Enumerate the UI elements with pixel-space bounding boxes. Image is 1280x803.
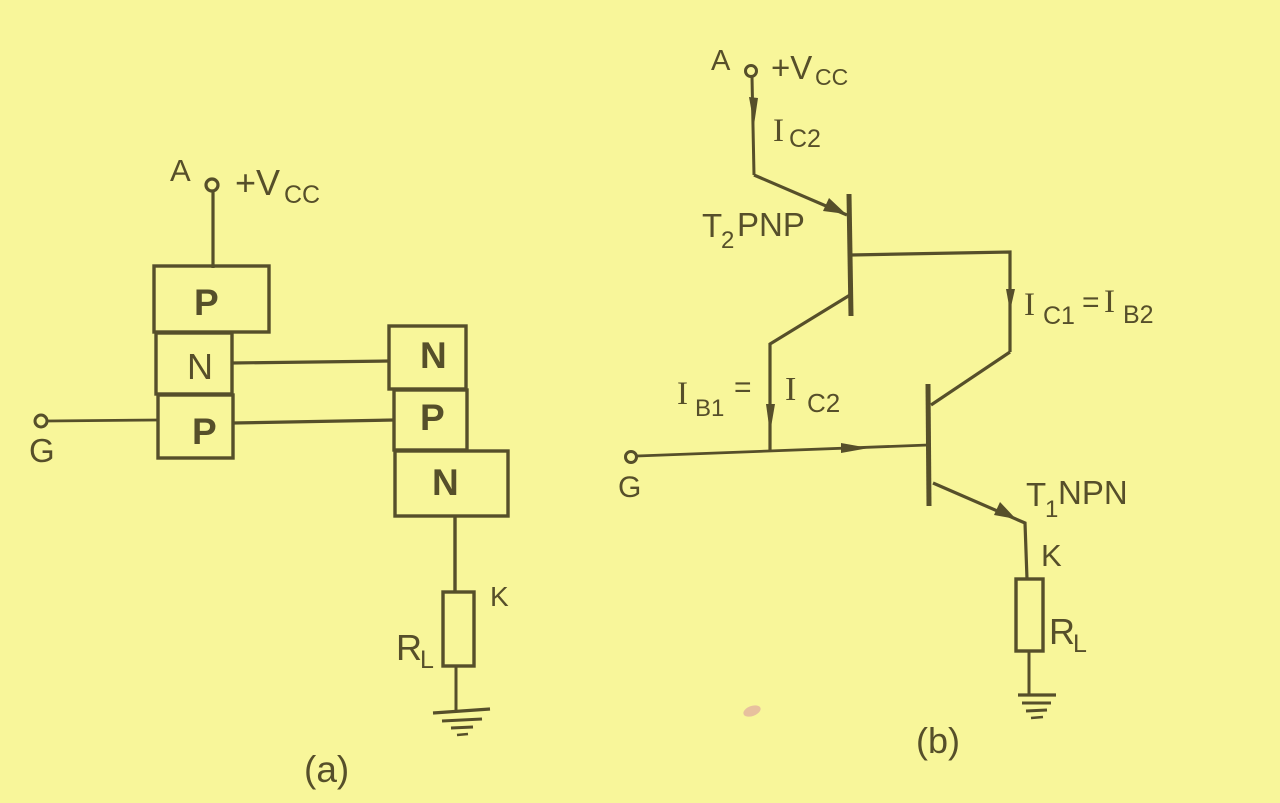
svg-text:P: P — [192, 411, 217, 452]
+Vcc label — [235, 162, 320, 209]
svg-text:I: I — [785, 371, 796, 408]
svg-text:C2: C2 — [807, 388, 840, 418]
current arrow Ib1 wire — [766, 404, 775, 433]
svg-text:=: = — [1082, 286, 1100, 319]
svg-text:A: A — [711, 45, 731, 77]
label K (b) — [1041, 538, 1062, 573]
N region box (left middle) — [156, 333, 232, 394]
T1 collector wire — [931, 352, 1010, 405]
node A label (b) — [711, 45, 731, 77]
wire N box to resistor — [453, 516, 456, 592]
wire G to T1 base — [637, 445, 928, 456]
caption (b) — [916, 720, 960, 761]
label P (gate region) — [192, 411, 217, 452]
svg-text:1: 1 — [1045, 496, 1058, 523]
svg-text:K: K — [490, 581, 509, 612]
label N (right top) — [420, 335, 447, 376]
ground (a) — [433, 709, 490, 735]
svg-text:G: G — [618, 471, 641, 504]
T2 emitter arrow — [823, 198, 846, 214]
svg-text:I: I — [1104, 284, 1115, 320]
terminal G circle — [35, 415, 47, 427]
svg-text:CC: CC — [815, 64, 848, 90]
N region box (right top) — [389, 326, 466, 389]
wire N to N — [232, 361, 389, 363]
svg-text:(b): (b) — [916, 720, 960, 761]
svg-text:I: I — [677, 376, 688, 412]
wire G to P box — [47, 420, 158, 421]
pink smudge artifact — [742, 703, 762, 719]
+Vcc label (b) — [771, 49, 848, 90]
svg-text:A: A — [170, 153, 191, 188]
T2 emitter wire — [754, 175, 847, 215]
T1 emitter arrow — [994, 502, 1016, 519]
wire resistor to ground (b) — [1028, 651, 1031, 695]
T2 base wire to right — [851, 252, 1010, 352]
svg-text:N: N — [420, 335, 447, 376]
gate current arrow — [841, 443, 869, 453]
svg-text:L: L — [420, 646, 434, 674]
terminal G circle (b) — [626, 452, 637, 463]
wire P to P — [233, 420, 394, 423]
svg-text:R: R — [396, 627, 422, 668]
label Ic2 mid — [785, 371, 840, 418]
label Ic2 top — [773, 113, 821, 153]
T2 collector wire — [770, 295, 850, 450]
svg-text:P: P — [194, 282, 219, 323]
N region box (right bottom, cathode) — [395, 451, 508, 516]
label N (left middle) — [187, 346, 213, 387]
label RL (b) — [1049, 611, 1087, 658]
svg-text:N: N — [187, 346, 213, 387]
T2 base bar — [849, 194, 851, 316]
svg-text:G: G — [29, 432, 55, 469]
wire A to P box — [211, 191, 214, 268]
T1 base bar — [928, 384, 929, 506]
node A label — [170, 153, 191, 188]
T1 emitter wire — [933, 483, 1027, 579]
P region box (left lower, gate) — [158, 395, 233, 458]
svg-text:NPN: NPN — [1058, 474, 1128, 511]
svg-text:+V: +V — [771, 49, 812, 86]
terminal A circle — [206, 179, 218, 191]
svg-text:B2: B2 — [1123, 301, 1154, 329]
svg-text:P: P — [420, 397, 445, 438]
svg-text:B1: B1 — [695, 395, 724, 422]
svg-text:+V: +V — [235, 162, 280, 203]
P region box (right middle) — [394, 390, 467, 450]
resistor RL (a) — [443, 592, 474, 666]
label N (cathode) — [432, 462, 459, 503]
ground (b) — [1018, 695, 1056, 718]
svg-text:PNP: PNP — [737, 206, 805, 243]
svg-text:=: = — [734, 371, 752, 404]
current arrow Ic2 top — [749, 97, 758, 125]
svg-text:I: I — [773, 113, 784, 149]
svg-text:C2: C2 — [789, 125, 821, 153]
terminal A circle (b) — [746, 66, 757, 77]
label Ic1=Ib2 — [1024, 284, 1154, 330]
svg-text:L: L — [1073, 630, 1087, 658]
svg-text:T: T — [702, 207, 722, 244]
wire A down (b) — [752, 77, 754, 175]
wire resistor to ground — [455, 666, 458, 711]
svg-text:T: T — [1026, 476, 1046, 513]
current arrow Ic1 — [1006, 289, 1015, 311]
svg-text:N: N — [432, 462, 459, 503]
P region box (anode) — [154, 266, 269, 332]
svg-text:(a): (a) — [304, 749, 349, 790]
label P (right middle) — [420, 397, 445, 438]
label T1 NPN — [1026, 474, 1128, 523]
label P (anode) — [194, 282, 219, 323]
label T2 PNP — [702, 206, 805, 254]
label G — [29, 432, 55, 469]
svg-text:I: I — [1024, 287, 1035, 323]
caption (a) — [304, 749, 349, 790]
svg-text:K: K — [1041, 538, 1062, 573]
svg-text:C1: C1 — [1043, 302, 1075, 330]
label G (b) — [618, 471, 641, 504]
svg-text:R: R — [1049, 611, 1075, 652]
label RL (a) — [396, 627, 434, 674]
svg-text:CC: CC — [284, 181, 320, 209]
label Ib1 = — [677, 371, 752, 422]
resistor RL (b) — [1016, 579, 1043, 651]
svg-text:2: 2 — [721, 227, 734, 254]
label K (a) — [490, 581, 509, 612]
